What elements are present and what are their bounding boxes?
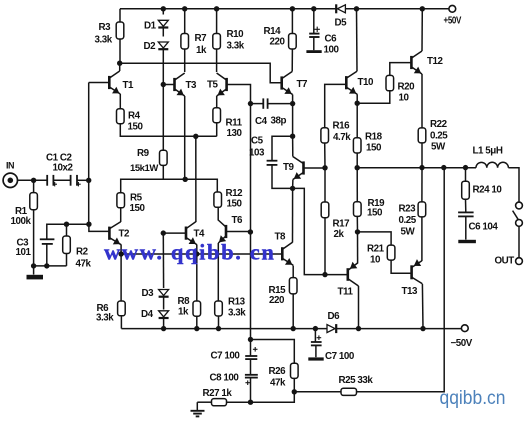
wire R13 to rail [218, 316, 220, 329]
wire C7 top [250, 340, 252, 356]
diode D4 [159, 311, 169, 318]
node R2 top [64, 222, 69, 227]
label T9 [283, 162, 295, 173]
label R7 [195, 33, 208, 44]
svg-text:101: 101 [16, 247, 32, 258]
wire T7 emitter down [292, 95, 294, 137]
wire R21 top corner [358, 232, 392, 245]
svg-text:47k: 47k [270, 378, 286, 389]
label D2 [144, 41, 157, 52]
svg-text:D5: D5 [335, 18, 348, 29]
node T9 base [322, 165, 327, 170]
label R12 value [227, 199, 243, 210]
wire R27 left [197, 401, 211, 403]
label C6 [325, 34, 338, 45]
wire R14 to T7 collector [291, 49, 293, 72]
svg-text:C4: C4 [255, 116, 268, 127]
diode D3 [159, 290, 169, 297]
wire R25 left [294, 391, 341, 393]
label C3 [17, 238, 30, 249]
wire C4 right [268, 103, 293, 105]
label R23 [399, 204, 417, 215]
label R8 [178, 296, 191, 307]
wire D2 to T3 base node [162, 49, 164, 84]
label R22 value1 [430, 131, 448, 142]
svg-text:R7: R7 [195, 33, 208, 44]
terminal OUT upper [516, 202, 523, 209]
wire T10 base corner [325, 84, 346, 127]
label C5 [251, 136, 264, 147]
capacitor C7b [311, 342, 322, 345]
inductor L1 [476, 162, 508, 167]
svg-text:R12: R12 [226, 188, 244, 199]
svg-text:5W: 5W [401, 227, 416, 238]
transistor T10 [346, 71, 357, 94]
svg-text:R13: R13 [228, 297, 246, 308]
wire T13 emitter to rail [421, 284, 424, 329]
node top rail / T12 collector junction [420, 6, 425, 11]
wire R24 to C6b [465, 199, 467, 212]
node T4 emitter junction [194, 251, 199, 256]
label R26 [269, 366, 287, 377]
wire T2 collector to R5 [120, 208, 122, 222]
wire R3 bottom to T1 collector node [119, 39, 121, 63]
capacitor C1 [47, 175, 57, 187]
ground C6b [458, 240, 476, 243]
capacitor C2 [71, 175, 81, 187]
wire bottom rail [121, 328, 461, 330]
label R2 [76, 247, 89, 258]
wire T1 collector [119, 63, 121, 71]
wire R15 to rail [292, 294, 294, 329]
wire R4 bottom corner [120, 124, 216, 137]
svg-text:R14: R14 [264, 26, 282, 37]
transistor T8 [282, 242, 293, 265]
label R14 value [270, 37, 286, 48]
capacitor C6b [458, 212, 474, 216]
svg-text:47k: 47k [76, 259, 92, 270]
wire R7 top [184, 9, 186, 34]
svg-text:10: 10 [399, 93, 410, 104]
transistor T3 [175, 73, 185, 96]
wire T11 emitter to rail [358, 286, 360, 329]
node top rail / R10 junction [214, 6, 219, 11]
svg-text:3.3k: 3.3k [228, 308, 246, 319]
wire C5 bottom corner [272, 165, 293, 189]
capacitor C6 plus [315, 27, 320, 32]
label R12 [226, 188, 244, 199]
label R21 value [370, 255, 381, 266]
svg-text:38p: 38p [271, 116, 287, 127]
label R3 value [95, 35, 113, 46]
label T4 [194, 229, 206, 240]
resistor R1 [30, 193, 38, 210]
resistor R12 [214, 192, 222, 207]
wire T9 collector up [292, 136, 294, 156]
wire R19 bottom [356, 216, 358, 232]
wire T4 base to D3 [162, 233, 164, 288]
svg-text:15k1W: 15k1W [130, 163, 158, 174]
label C1 C2 value [53, 163, 74, 174]
label C4 value [271, 116, 287, 127]
svg-text:10x2: 10x2 [53, 163, 74, 174]
wire R16 bottom [324, 143, 326, 168]
label T13 [402, 286, 419, 297]
label C1 C2 [46, 153, 73, 164]
svg-text:100k: 100k [11, 216, 32, 227]
label IN [6, 161, 14, 171]
svg-text:R25 33k: R25 33k [339, 375, 374, 386]
wire T12 emitter down [421, 74, 423, 128]
wire R10 bottom to T5 collector [216, 49, 218, 72]
label R1 [15, 206, 28, 217]
resistor R11 [213, 108, 221, 123]
label C4 [255, 116, 268, 127]
svg-text:D4: D4 [141, 309, 154, 320]
label L1 [473, 146, 503, 157]
wire D1 to D2 [162, 28, 164, 37]
svg-text:R21: R21 [367, 244, 385, 255]
wire C6 top [313, 9, 315, 33]
wire T2 emitter [120, 245, 122, 255]
wire C6 bottom [313, 37, 315, 50]
label T10 [358, 77, 375, 88]
wire R2 top [66, 224, 68, 236]
label T8 [275, 232, 287, 243]
wire C7 to C8 [250, 359, 252, 374]
label C6 value [324, 45, 340, 56]
svg-text:150: 150 [366, 143, 382, 154]
svg-text:R24 10: R24 10 [473, 185, 503, 196]
label D4 [141, 309, 154, 320]
svg-text:T11: T11 [338, 287, 354, 298]
resistor R2 [63, 236, 71, 254]
terminal IN outer [3, 173, 17, 187]
label T5 [207, 80, 219, 91]
label OUT [495, 256, 515, 267]
node top rail / C6 junction [311, 6, 316, 11]
label D3 [142, 288, 155, 299]
wire T10 emitter down [356, 94, 358, 103]
label R11 value [227, 128, 243, 139]
capacitor C4 [263, 98, 267, 108]
svg-text:T2: T2 [119, 229, 131, 240]
svg-text:R8: R8 [178, 296, 191, 307]
wire R27 right [227, 401, 251, 403]
label R16 [333, 121, 351, 132]
resistor R9 [160, 150, 168, 165]
diode D1 [158, 20, 168, 27]
svg-text:1k: 1k [178, 307, 189, 318]
svg-text:0.25: 0.25 [430, 131, 448, 142]
wire R24 top [465, 168, 467, 182]
node C4 right [290, 101, 295, 106]
wire input vertical [88, 83, 90, 225]
resistor R23 [418, 202, 426, 217]
node R17 bottom [322, 272, 327, 277]
wire C5 top corner [272, 136, 293, 160]
resistor R26 [291, 363, 299, 378]
svg-text:D6: D6 [328, 311, 341, 322]
wire node B to T11 base [293, 188, 347, 274]
svg-text:5W: 5W [431, 142, 446, 153]
svg-text:10: 10 [370, 255, 381, 266]
svg-text:2k: 2k [334, 229, 345, 240]
wire D3 to D4 [163, 297, 165, 310]
diode D6 [327, 324, 336, 333]
wire R18 bottom [356, 153, 358, 168]
label -50V [451, 338, 473, 349]
node B T9 emitter [290, 186, 295, 191]
transistor T9 [293, 157, 304, 180]
svg-text:D2: D2 [144, 41, 157, 52]
node R18 R19 [355, 165, 360, 170]
node R1 tap [31, 178, 36, 183]
resistor R5 [117, 193, 125, 208]
wire R20 bottom corner [357, 91, 390, 103]
svg-text:T1: T1 [123, 80, 135, 91]
wire T5-T6 base line [250, 104, 252, 340]
label R9 [137, 148, 150, 159]
svg-text:C5: C5 [251, 136, 264, 147]
wire C3 top corner [47, 224, 89, 239]
svg-text:C6 104: C6 104 [469, 222, 499, 233]
transistor T5 [217, 73, 227, 96]
resistor R14 [289, 34, 297, 50]
svg-text:T12: T12 [427, 56, 444, 67]
node T11 rail [356, 326, 361, 331]
label C6b [469, 222, 499, 233]
wire C7b top [314, 329, 316, 342]
label R20 [398, 82, 416, 93]
svg-text:R3: R3 [99, 22, 112, 33]
label R16 value [333, 132, 351, 143]
svg-text:R22: R22 [430, 119, 448, 130]
wire T6 emitter down [217, 243, 219, 301]
wire T5 emitter to R11 [216, 96, 218, 108]
transistor T7 [282, 72, 293, 95]
terminal IN inner [8, 178, 14, 184]
svg-text:150: 150 [367, 208, 383, 219]
svg-text:R4: R4 [128, 111, 141, 122]
resistor R4 [117, 109, 125, 124]
wire R26 bottom [293, 378, 295, 391]
svg-text:C8 100: C8 100 [210, 373, 240, 384]
svg-text:R5: R5 [130, 193, 143, 204]
wire C1 to C2 [53, 179, 70, 181]
svg-text:R18: R18 [365, 132, 383, 143]
svg-text:T5: T5 [207, 80, 219, 91]
label R21 [367, 244, 385, 255]
wire OUT middle to OUT terminal [518, 226, 520, 257]
node rail R13 [216, 326, 221, 331]
wire T2 emitter to T8 base [121, 253, 281, 255]
svg-text:IN: IN [6, 161, 14, 171]
node R26 tap [248, 337, 253, 342]
node C8 bottom [248, 400, 253, 405]
wire R17 bottom [324, 218, 326, 275]
resistor R20 [386, 75, 394, 90]
node output R22-R23 [419, 165, 424, 170]
wire C6b bottom [465, 216, 467, 239]
resistor R3 [116, 22, 124, 39]
label T1 [123, 80, 135, 91]
node input junction [86, 178, 91, 183]
svg-text:R11: R11 [226, 118, 243, 129]
label R5 [130, 193, 143, 204]
wire T3 base [163, 84, 174, 86]
diode D5 [336, 4, 345, 13]
label +50V [444, 16, 462, 27]
label R19 [368, 198, 386, 209]
wire T9 base right [304, 167, 326, 169]
svg-text:T4: T4 [194, 229, 206, 240]
svg-text:T13: T13 [402, 286, 419, 297]
label R15 value [269, 295, 285, 306]
label R27 1k [203, 388, 233, 399]
node C4 tap [248, 101, 253, 106]
resistor R18 [353, 138, 361, 153]
wire R6 to bottom rail [120, 316, 122, 329]
wire T13 collector up [421, 217, 423, 261]
wire IN to C1 [18, 179, 48, 181]
svg-text:C7 100: C7 100 [211, 351, 241, 362]
label D5 [335, 18, 348, 29]
resistor R21 [387, 245, 395, 260]
wire T3 emitter down [184, 96, 186, 179]
wire C7b bottom [315, 345, 317, 357]
transistor T2 [109, 222, 121, 245]
capacitor C6 [309, 34, 319, 37]
label R11 [226, 118, 243, 129]
label R7 value [196, 45, 207, 56]
switch blade [513, 211, 518, 220]
svg-text:103: 103 [249, 148, 265, 159]
label R22 [430, 119, 448, 130]
node top rail / R7 junction [182, 6, 187, 11]
label R18 [365, 132, 383, 143]
transistor T12 [411, 51, 422, 74]
svg-text:100: 100 [324, 45, 340, 56]
label R18 value [366, 143, 382, 154]
wire T2 emitter to R6 [120, 254, 122, 301]
terminal OUT middle [516, 220, 523, 227]
svg-text:4.7k: 4.7k [333, 132, 351, 143]
wire bias line R5-R7-R12 [121, 179, 218, 192]
wire R21 bottom corner [391, 260, 411, 273]
transistor T4 [186, 222, 197, 245]
svg-text:R23: R23 [399, 204, 417, 215]
capacitor C8 plus [245, 380, 250, 385]
node T10 emitter [355, 101, 360, 106]
wire T8 emitter down [292, 266, 294, 278]
node R19 bottom [355, 229, 360, 234]
transistor T11 [348, 262, 359, 286]
capacitor C7 plus [253, 347, 258, 352]
node top rail / T10 collector junction [354, 6, 359, 11]
wire R1 top [33, 180, 35, 192]
node rail C7b [313, 326, 318, 331]
label R25 33k [339, 375, 374, 386]
wire T1 collector to T7 base [120, 63, 281, 83]
wire T3 base node to R9 [162, 85, 164, 151]
diode D2 [158, 42, 168, 49]
wire R7 bottom to T3 collector [184, 49, 186, 72]
resistor R24 [462, 181, 470, 199]
svg-text:T9: T9 [283, 162, 295, 173]
label R4 [128, 111, 141, 122]
svg-text:220: 220 [269, 295, 285, 306]
svg-text:0.25: 0.25 [399, 215, 417, 226]
svg-text:1k: 1k [196, 45, 207, 56]
label R14 [264, 26, 282, 37]
capacitor C3 [40, 239, 55, 244]
label R10 value [227, 41, 245, 52]
label T6 [232, 215, 244, 226]
label C7b [325, 351, 355, 362]
wire R1 bottom [33, 210, 35, 266]
wire R3 top [119, 9, 121, 22]
label T7 [297, 79, 309, 90]
wire T4 emitter down [196, 245, 198, 302]
label R6 value [96, 313, 114, 324]
label T12 [427, 56, 444, 67]
svg-text:T10: T10 [358, 77, 375, 88]
label C7 [211, 351, 241, 362]
label D6 [328, 311, 341, 322]
label R17 [333, 219, 351, 230]
label R17 value [334, 229, 345, 240]
wire T5 base to right [227, 85, 251, 104]
node T6 base [248, 229, 253, 234]
label R22 value2 [431, 142, 446, 153]
svg-text:R17: R17 [333, 219, 351, 230]
svg-text:150: 150 [227, 199, 243, 210]
label R23 value2 [401, 227, 416, 238]
svg-text:−50V: −50V [451, 338, 473, 349]
svg-text:220: 220 [270, 37, 286, 48]
label R15 [269, 285, 287, 296]
label R23 value1 [399, 215, 417, 226]
svg-text:R9: R9 [137, 148, 150, 159]
label R13 [228, 297, 246, 308]
label R13 value [228, 308, 246, 319]
wire +50V top rail [120, 8, 449, 10]
wire T6 base right [226, 231, 250, 233]
resistor R8 [193, 301, 201, 316]
wire T2 base [89, 224, 110, 231]
node R26 bottom [292, 389, 297, 394]
wire T4 collector up [195, 136, 197, 222]
node R2 node [86, 222, 91, 227]
resistor R27 [212, 399, 227, 406]
svg-text:R10: R10 [227, 29, 245, 40]
wire C8 bottom [250, 378, 252, 403]
node output R24 tap [463, 165, 468, 170]
ground R27 [191, 402, 205, 416]
label T2 [119, 229, 131, 240]
svg-text:R20: R20 [398, 82, 416, 93]
label R24 10 [473, 185, 503, 196]
resistor R17 [321, 202, 329, 218]
resistor R13 [215, 301, 223, 316]
label R20 value [399, 93, 410, 104]
resistor R10 [213, 34, 221, 50]
svg-text:3.3k: 3.3k [96, 313, 114, 324]
wire R23 top [421, 168, 423, 202]
label R8 value [178, 307, 189, 318]
svg-text:T8: T8 [275, 232, 287, 243]
